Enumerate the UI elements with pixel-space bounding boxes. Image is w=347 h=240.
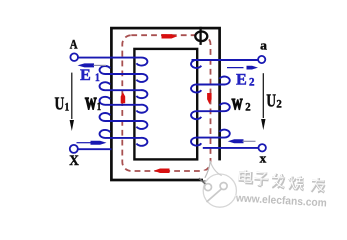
transformer core T1 window (inner edge) [134,49,197,159]
svg-text:A: A [70,37,78,52]
W2 left-side loop of turn 3 [191,111,201,119]
svg-text:x: x [260,150,267,165]
W2 left-side loop of turn 1 [191,60,201,68]
watermark url www.elecfans.com [234,192,327,210]
voltage U2 arrow (pointing down) [261,73,265,130]
voltage U1 arrow (pointing down) [70,73,74,131]
W1 right-side loop of turn 3 [136,90,147,98]
flux direction arrow, left leg (pointing up) [121,92,126,103]
W2 left-side loop of turn 2 [191,84,201,92]
terminal x [259,144,266,151]
watermark text "dianzifashaoyou" (approximated strokes) [240,170,326,192]
W1 turn 3 [106,89,141,91]
W1 left-side loop of turn 6 [100,130,111,138]
svg-text:1: 1 [95,70,100,84]
W2 right-side loop of turn 3 [220,103,230,111]
terminal A [70,53,78,61]
primary winding W1 (on left leg) [78,58,147,146]
svg-text:E: E [80,67,91,84]
W1 right-side loop of turn 2 [136,74,147,82]
W1 left-side loop of turn 3 [100,82,111,90]
W1 right-side loop of turn 1 [136,58,147,66]
flux path PHI dashed loop [122,35,210,171]
svg-text:W: W [232,97,243,114]
svg-text:a: a [260,38,267,53]
watermark logo bubble [199,160,237,207]
W2 right-side loop of turn 2 [220,77,230,85]
W1 left-side loop of turn 2 [100,66,111,74]
primary current i1 arrow (pointing right) [77,141,107,145]
svg-text:U: U [266,90,276,110]
svg-text:E: E [236,72,247,89]
W1 left-side loop of turn 4 [100,97,111,105]
svg-text:1: 1 [65,100,70,114]
W2 turn 2 [196,84,225,86]
wire from terminal A / W1 turn 1 [78,57,141,59]
svg-text:U: U [55,94,65,114]
W2 right-side loop of turn 4 [220,130,230,138]
terminal X [70,145,78,153]
flux direction arrow, right leg (pointing down) [207,93,212,104]
svg-text:1: 1 [97,99,101,113]
W2 left-side loop of turn 4 [191,138,201,146]
flux symbol PHI [195,27,207,45]
wire from terminal X to W1 [78,148,112,150]
W1 right-side loop of turn 4 [136,105,147,113]
W1 right-side loop of turn 5 [136,121,147,129]
transformer core T1 outer edge [111,28,219,180]
wire to terminal x [203,147,259,149]
flux direction arrow, bottom yoke (pointing left) [154,169,170,174]
svg-text:2: 2 [249,75,255,89]
secondary current i2 arrow (pointing left) [228,139,256,143]
watermark text highlight pass [239,169,325,191]
W1 turn 6 [106,137,141,139]
EMF E2 direction arrow (pointing right) [227,66,258,70]
wire to terminal a / W2 turn 1 [192,59,259,61]
W1 turn 4 [106,104,141,106]
W1 turn 5 [106,120,141,122]
svg-text:2: 2 [276,96,281,110]
secondary winding W2 (on right leg) [191,60,258,148]
W2 turn 3 [196,110,225,112]
W1 right-side loop of turn 6 [136,138,147,146]
W2 turn 4 [196,137,225,139]
W1 left-side loop of turn 5 [100,113,111,121]
svg-text:X: X [69,153,79,169]
flux direction arrow, top yoke (pointing right) [162,34,178,38]
terminal a [258,56,265,63]
svg-text:W: W [85,94,97,113]
svg-text:2: 2 [245,100,250,114]
W1 turn 2 [106,73,141,75]
EMF E1 direction arrow (pointing left) [78,63,107,67]
